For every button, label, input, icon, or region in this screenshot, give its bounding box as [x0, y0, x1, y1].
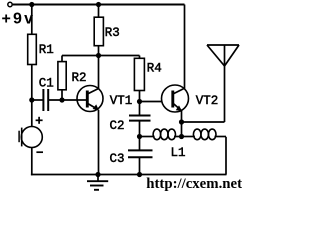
svg-text:R2: R2: [72, 71, 87, 85]
svg-text:VT2: VT2: [196, 94, 219, 108]
svg-text:R1: R1: [39, 43, 54, 57]
svg-text:R3: R3: [105, 26, 120, 40]
svg-text:R4: R4: [147, 62, 162, 76]
svg-text:C1: C1: [39, 77, 54, 91]
svg-text:L1: L1: [171, 146, 186, 160]
svg-text:C3: C3: [110, 152, 125, 166]
svg-text:+9v: +9v: [2, 11, 36, 28]
svg-text:http://cxem.net: http://cxem.net: [146, 176, 242, 192]
svg-text:C2: C2: [110, 119, 125, 133]
svg-text:VT1: VT1: [110, 94, 133, 108]
